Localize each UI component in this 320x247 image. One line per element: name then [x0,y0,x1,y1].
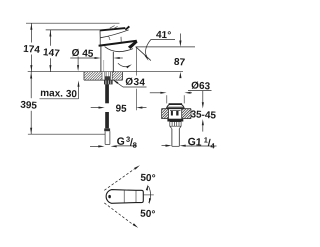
hose thread tip G3/8 [104,131,106,144]
shank threaded lower [105,76,110,80]
wire [46,29,101,31]
node 174 dim [30,23,32,42]
svg-text:87: 87 [174,57,186,69]
countertop slab [83,72,85,80]
aerator [128,40,138,49]
spout top [99,41,137,46]
waste thread [169,122,171,127]
swivel angle arc [148,186,150,203]
node 95 dim [91,107,101,109]
waste body through slab [168,109,170,119]
top view pivot dot [108,195,111,198]
lever reflection marks [110,26,115,29]
svg-text:147: 147 [43,47,61,59]
swivel dashed left-down [104,203,134,226]
wire spout axis [135,47,137,75]
svg-text:395: 395 [20,100,38,112]
supply hose [105,84,109,103]
wire [136,46,196,48]
swivel dashed left-up [104,168,136,190]
svg-text:95: 95 [115,103,127,115]
cartridge neck [99,38,101,45]
node flow arc [118,63,129,66]
waste locknut [167,119,183,122]
lever handle [100,28,125,30]
faucet body [100,46,102,72]
waste dia63 ext lines [166,95,168,103]
svg-text:max. 30: max. 30 [40,88,77,100]
waste cap [169,103,183,105]
wire water stream [136,47,151,61]
wire [28,71,183,73]
svg-text:50°: 50° [140,209,156,221]
spout underside [105,47,133,52]
node 87 dim [179,34,181,43]
top view faucet outline [106,190,143,204]
node 395 dim [30,72,32,98]
mounting nut [104,80,113,84]
wire [26,22,120,24]
node dia63 dim [150,92,163,94]
node G3/8 [90,145,101,147]
svg-text:50°: 50° [140,173,156,185]
hatch [84,72,85,73]
waste countertop slab [162,108,192,110]
waste taper [170,126,172,129]
waste tailpipe [171,129,173,147]
hose collar [104,128,110,131]
node 35-45 dim [202,91,204,105]
wire [28,133,105,135]
top view seams [123,190,125,203]
mounting shank [104,72,106,80]
top view centerline [143,194,154,196]
node G1-1/4 [162,145,168,147]
node 147 dim [49,30,51,46]
svg-text:35-45: 35-45 [190,109,217,121]
svg-text:174: 174 [23,44,41,56]
